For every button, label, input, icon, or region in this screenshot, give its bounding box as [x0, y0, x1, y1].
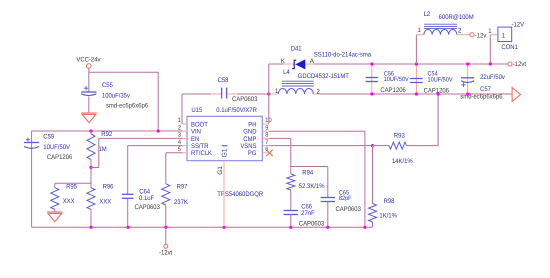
- node junction VSNS / R98 / R93: [371, 144, 374, 147]
- label 10UF/50V (C59): [43, 144, 70, 151]
- label CAP0603 (C64): [135, 204, 161, 211]
- wire R93 feedback vertical: [437, 94, 439, 146]
- capacitor C58: [222, 88, 227, 99]
- wire R94 top lead: [290, 167, 292, 175]
- node VCC terminal: [87, 64, 92, 69]
- wire C58 right: [227, 93, 268, 95]
- svg-text:14K/1%: 14K/1%: [392, 158, 413, 165]
- svg-text:RT/CLK: RT/CLK: [191, 150, 213, 157]
- svg-text:XXX: XXX: [99, 199, 111, 206]
- wire VIN rail: [32, 130, 183, 132]
- wire GND vertical: [364, 131, 366, 227]
- label D41: [291, 45, 302, 52]
- wire R92 top lead: [90, 131, 92, 134]
- label CAP1206 (C59): [47, 154, 73, 161]
- label K: [281, 58, 286, 65]
- svg-text:22uF/50v: 22uF/50v: [480, 74, 505, 81]
- wire GND pin 9 route: [269, 130, 365, 132]
- wire C55 to ground: [88, 97, 90, 113]
- U15 G1 pin wire: [223, 161, 225, 228]
- wire PH vertical: [268, 64, 270, 124]
- wire -12vt top rail: [314, 63, 509, 65]
- svg-text:C57: C57: [480, 86, 491, 93]
- svg-text:CMP: CMP: [243, 136, 257, 143]
- svg-text:82pF: 82pF: [339, 195, 352, 202]
- op-amp U15 body: [187, 116, 262, 160]
- node junction feedback / rail: [437, 92, 440, 95]
- wire SS/TR to C64: [128, 145, 183, 147]
- resistor R98: [369, 204, 377, 223]
- node junction C64 / rail: [126, 226, 129, 229]
- wire CMP pin 8 route: [269, 137, 291, 139]
- capacitor C57: [461, 78, 474, 87]
- off-page connector arrow: [512, 88, 520, 102]
- wire C54 vertical: [415, 64, 417, 94]
- label U15: [191, 107, 202, 114]
- label CON1: [501, 44, 518, 51]
- svg-text:VSNS: VSNS: [240, 143, 257, 150]
- svg-text:10UF/50V: 10UF/50V: [43, 144, 70, 151]
- svg-text:2: 2: [317, 88, 321, 95]
- inductor L2 core lines: [424, 24, 457, 28]
- label 10UF/50V (C54): [428, 77, 454, 84]
- node junction C65 / rail: [326, 226, 329, 229]
- label C64: [139, 189, 150, 196]
- label CAP0603 (C66): [299, 220, 325, 227]
- label R95: [66, 184, 77, 191]
- diode D41 pins: [284, 63, 314, 65]
- resistor R93: [389, 142, 407, 149]
- wire R95 branch: [55, 182, 91, 184]
- wire C56 vertical: [371, 64, 373, 94]
- node junction C54 bottom: [415, 92, 418, 95]
- wire R95 bottom lead: [54, 209, 56, 211]
- label 1 (L2 pin): [418, 27, 422, 34]
- resistor R94: [287, 174, 295, 190]
- label 2 (L4 pin): [317, 88, 321, 95]
- connector CON1 pin stub: [490, 34, 498, 36]
- U15 pin G1 number: [217, 166, 224, 175]
- wire R98 top lead: [372, 146, 374, 204]
- wire R97 bottom lead: [165, 205, 167, 227]
- wire VSNS pin 7 route: [269, 145, 373, 147]
- svg-text:BOOT: BOOT: [191, 121, 208, 128]
- node junction CON1 / -12vt rail: [489, 62, 492, 65]
- net label -12vt bottom: [159, 250, 172, 257]
- label 82pF: [339, 195, 352, 202]
- wire EN to pin 3: [99, 137, 183, 139]
- label 0.1uF: [139, 195, 154, 202]
- label 2 (L2 pin): [458, 28, 462, 35]
- net label -12V: [512, 21, 525, 28]
- svg-text:VCC-24v: VCC-24v: [76, 57, 101, 64]
- svg-text:CON1: CON1: [501, 44, 518, 51]
- label 27nF: [301, 210, 315, 217]
- wire -12vt stub: [165, 227, 167, 244]
- label R98: [384, 198, 395, 205]
- wire C58 left: [182, 93, 221, 95]
- label C58: [218, 77, 229, 84]
- svg-text:U15: U15: [191, 107, 202, 114]
- node terminal -12v: [470, 33, 474, 37]
- node junction C57 top: [466, 62, 469, 65]
- wire PH to diode: [269, 63, 284, 65]
- svg-text:-12vt: -12vt: [159, 250, 172, 257]
- svg-text:600R@100M: 600R@100M: [439, 14, 474, 21]
- capacitor C65: [321, 198, 335, 202]
- svg-text:237K: 237K: [174, 199, 188, 206]
- label R93: [394, 133, 405, 140]
- svg-text:SS/TR: SS/TR: [191, 143, 209, 150]
- svg-text:smd-ec6p6x6p6: smd-ec6p6x6p6: [106, 103, 149, 110]
- node junction C56 top: [370, 62, 373, 65]
- wire left rail: [31, 131, 33, 227]
- svg-text:smd-ec6p6x6p6: smd-ec6p6x6p6: [460, 94, 503, 101]
- label smd-ec6p6x6p6 (C55 footprint): [106, 103, 149, 110]
- wire VCC feed vertical: [157, 72, 159, 131]
- wire RT/CLK to R97: [166, 152, 183, 154]
- wire R92-R96 link: [90, 168, 92, 188]
- wire EN horizontal short: [91, 167, 99, 169]
- node junction G1 / rail: [222, 226, 225, 229]
- label 600R@100M: [439, 14, 474, 21]
- node junction C54 top: [415, 62, 418, 65]
- svg-text:100uF/35v: 100uF/35v: [102, 93, 131, 100]
- svg-text:5: 5: [178, 146, 182, 153]
- wire comp node horizontal: [291, 166, 328, 168]
- U15 right pins 10-6 (PH GND CMP VSNS PG): [240, 117, 272, 157]
- label 1 (CON1 pin): [488, 28, 492, 35]
- capacitor C59: [24, 138, 39, 149]
- label TPS54060DGQR: [217, 191, 263, 198]
- label XXX (R96): [99, 199, 111, 206]
- wire C64 bottom lead: [127, 199, 129, 228]
- capacitor C56: [366, 78, 379, 82]
- diode D41: [292, 59, 305, 69]
- svg-text:C55: C55: [102, 82, 113, 89]
- svg-text:L2: L2: [424, 11, 431, 18]
- wire VCC drop: [88, 68, 90, 91]
- svg-text:0.1uF/50V/X7R: 0.1uF/50V/X7R: [216, 107, 257, 114]
- svg-text:G1: G1: [217, 166, 224, 175]
- wire C65 top lead: [327, 167, 329, 198]
- wire BOOT vertical: [181, 94, 183, 124]
- svg-text:1M: 1M: [99, 146, 107, 153]
- label C57: [480, 86, 491, 93]
- svg-text:L4: L4: [283, 69, 290, 76]
- resistor R92: [87, 134, 95, 160]
- wire L2 branch vertical: [415, 35, 417, 64]
- label SS110-do-214ac-sma: [314, 51, 372, 58]
- svg-text:10UF/50V: 10UF/50V: [384, 76, 410, 83]
- label GDCD4532-151MT: [298, 73, 349, 80]
- svg-text:SS110-do-214ac-sma: SS110-do-214ac-sma: [314, 51, 372, 58]
- wire R98 bottom lead: [372, 222, 374, 227]
- capacitor C55: [81, 86, 96, 96]
- svg-text:1: 1: [488, 28, 492, 35]
- svg-text:GND: GND: [243, 129, 256, 136]
- svg-text:D41: D41: [291, 45, 302, 52]
- svg-text:-12V: -12V: [512, 21, 525, 28]
- label XXX (R95): [63, 198, 75, 205]
- wire R92 bottom lead: [90, 160, 92, 168]
- node junction C57 bottom: [466, 92, 469, 95]
- svg-text:2: 2: [458, 28, 462, 35]
- node junction R97 / rail: [164, 226, 167, 229]
- label C66: [301, 204, 312, 211]
- svg-text:R95: R95: [66, 184, 77, 191]
- svg-text:XXX: XXX: [63, 198, 75, 205]
- node junction VIN rail / VCC feed: [157, 129, 160, 132]
- U15 left pins 1-5 (BOOT VIN EN SS/TR RT/CLK): [178, 117, 213, 157]
- label C59: [43, 134, 54, 141]
- node junction R96 / rail: [89, 226, 92, 229]
- label C54: [428, 71, 439, 78]
- wire VCC feed horizontal: [89, 71, 158, 73]
- wire CMP vertical: [290, 138, 292, 166]
- svg-text:-12v: -12v: [475, 32, 487, 39]
- resistor R95: [51, 188, 59, 210]
- label 52.3K/1%: [299, 183, 325, 190]
- svg-text:1: 1: [418, 27, 422, 34]
- resistor R97: [162, 184, 170, 205]
- label A: [310, 58, 315, 65]
- svg-text:8: 8: [265, 132, 269, 139]
- label 22uF/50v: [480, 74, 505, 81]
- label smd-ec6p6x6p6 (C57 footprint): [460, 94, 503, 101]
- svg-text:R94: R94: [302, 169, 313, 176]
- svg-text:R93: R93: [394, 133, 405, 140]
- label R97: [177, 184, 188, 191]
- node junction GND / rail: [363, 226, 366, 229]
- label L2: [424, 11, 431, 18]
- inductor L4 core lines: [282, 81, 314, 86]
- wire R93 right lead: [407, 145, 439, 147]
- svg-text:CAP0603: CAP0603: [336, 206, 362, 213]
- svg-text:PG: PG: [248, 150, 257, 157]
- wire C64 top lead: [127, 146, 129, 194]
- svg-text:10UF/50V: 10UF/50V: [428, 77, 454, 84]
- inductor L4: [269, 89, 512, 94]
- label C56: [384, 71, 395, 78]
- svg-text:CAP1206: CAP1206: [47, 154, 73, 161]
- node junction PH / C58 / L4: [267, 92, 270, 95]
- ground under R95: [47, 212, 63, 222]
- svg-text:C59: C59: [43, 134, 54, 141]
- svg-text:1K/1%: 1K/1%: [379, 213, 397, 220]
- wire R97 top lead: [165, 153, 167, 184]
- svg-text:CAP0603: CAP0603: [232, 96, 258, 103]
- svg-text:R92: R92: [101, 131, 112, 138]
- label 100uF/35v: [102, 93, 131, 100]
- svg-text:EN: EN: [191, 136, 199, 143]
- node terminal -12vt bottom: [164, 244, 168, 248]
- node junction C56 bottom: [370, 92, 373, 95]
- svg-text:9: 9: [265, 124, 269, 131]
- wire C66 bottom lead: [290, 215, 292, 228]
- label 1M: [99, 146, 107, 153]
- label L4: [283, 69, 290, 76]
- label R94: [302, 169, 313, 176]
- svg-text:2: 2: [178, 124, 182, 131]
- svg-text:1: 1: [275, 88, 279, 95]
- label 237K: [174, 199, 188, 206]
- label CAP0603 (C65): [336, 206, 362, 213]
- svg-text:GDCD4532-151MT: GDCD4532-151MT: [298, 73, 349, 80]
- node EN junction: [89, 166, 92, 169]
- node junction C66 / rail: [289, 226, 292, 229]
- svg-text:0.1uF: 0.1uF: [139, 195, 154, 202]
- node terminal -12vt right: [508, 62, 512, 66]
- svg-text:27nF: 27nF: [301, 210, 315, 217]
- wire bottom -12vt rail: [32, 226, 373, 228]
- wire CON1 vertical: [489, 35, 491, 64]
- svg-text:R98: R98: [384, 198, 395, 205]
- svg-text:PH: PH: [248, 121, 256, 128]
- net label VCC-24v: [76, 57, 101, 64]
- svg-text:CAP1206: CAP1206: [424, 88, 450, 95]
- wire R95 top lead: [54, 183, 56, 187]
- label 1 (L4 pin): [275, 88, 279, 95]
- label 0.1uF/50V/X7R: [216, 107, 257, 114]
- svg-text:1: 1: [502, 33, 506, 40]
- svg-text:-12vt: -12vt: [513, 61, 526, 68]
- label CAP0603 (C58): [232, 96, 258, 103]
- label CAP1206 (C54): [424, 88, 450, 95]
- svg-text:VIN: VIN: [191, 129, 201, 136]
- svg-text:7: 7: [265, 139, 269, 146]
- net label -12vt right: [513, 61, 526, 68]
- label 10UF/50V (C56): [384, 76, 410, 83]
- inductor L2: [416, 30, 469, 35]
- label C65: [339, 189, 350, 196]
- wire R96 bottom lead: [90, 209, 92, 227]
- node junction R92 top: [89, 129, 92, 132]
- label CAP1206 (C56): [380, 87, 406, 94]
- svg-text:R96: R96: [103, 184, 114, 191]
- svg-text:3: 3: [178, 132, 182, 139]
- label 1K/1%: [379, 213, 397, 220]
- wire C57 vertical: [467, 64, 469, 94]
- svg-text:G1: G1: [222, 148, 229, 157]
- label 1 inside CON1: [502, 33, 506, 40]
- resistor R96: [87, 188, 95, 210]
- capacitor C54: [410, 79, 423, 83]
- label 14K/1%: [392, 158, 413, 165]
- no-connect X on pin 6 PG: [266, 150, 272, 156]
- wire C65 bottom lead: [327, 202, 329, 228]
- svg-text:CAP1206: CAP1206: [380, 87, 406, 94]
- svg-text:CAP0603: CAP0603: [299, 220, 325, 227]
- capacitor C64: [122, 194, 134, 198]
- connector CON1: [498, 27, 512, 41]
- svg-text:4: 4: [178, 139, 182, 146]
- label R92: [101, 131, 112, 138]
- svg-text:C58: C58: [218, 77, 229, 84]
- ground under C55: [81, 113, 97, 123]
- wire R93 left lead: [373, 145, 390, 147]
- svg-text:K: K: [281, 58, 286, 65]
- capacitor C66: [284, 211, 298, 215]
- svg-text:R97: R97: [177, 184, 188, 191]
- label R96: [103, 184, 114, 191]
- svg-text:1: 1: [178, 117, 182, 124]
- label C55: [102, 82, 113, 89]
- wire R94 to C66: [290, 190, 292, 210]
- net label -12v: [475, 32, 487, 39]
- U15 pin G1 name: [222, 146, 229, 158]
- svg-text:CAP0603: CAP0603: [135, 204, 161, 211]
- wire EN vertical: [98, 138, 100, 167]
- svg-text:52.3K/1%: 52.3K/1%: [299, 183, 325, 190]
